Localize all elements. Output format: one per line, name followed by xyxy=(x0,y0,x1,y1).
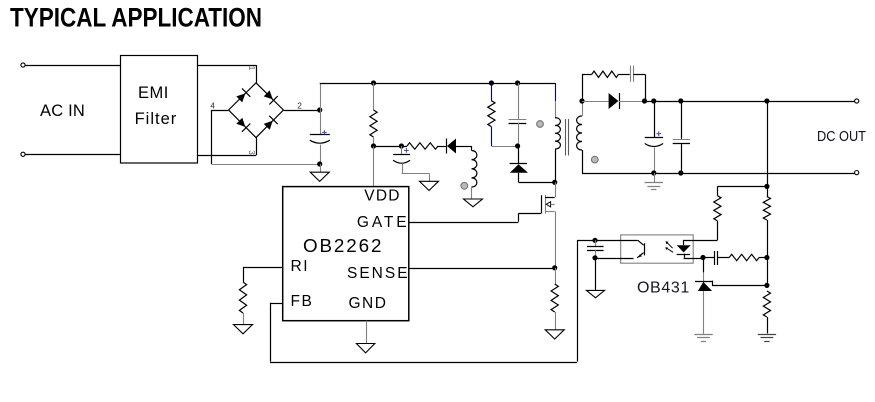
wire SENSE pin xyxy=(409,268,555,270)
VDD capacitor C2 (electrolytic) xyxy=(393,146,429,181)
bulk capacitor C1 (electrolytic) xyxy=(310,110,330,164)
node bulk cap bottom xyxy=(317,161,322,166)
diode D1 (aux rectifier) xyxy=(447,139,457,154)
bridge rectifier BD1 outline xyxy=(229,83,284,138)
node VDD cap xyxy=(399,143,404,148)
wire AC line to EMI filter xyxy=(25,65,120,67)
wire to input ground xyxy=(320,164,322,172)
DC OUT negative terminal xyxy=(855,171,859,175)
ground symbol (aux winding) xyxy=(464,199,483,207)
node FB cap bottom xyxy=(592,255,597,260)
label DC OUT xyxy=(817,129,866,145)
svg-text:AC IN: AC IN xyxy=(40,102,85,120)
clamp capacitor C3 xyxy=(509,83,527,146)
output capacitor C5 xyxy=(673,101,690,173)
wire divider to REF node xyxy=(767,258,769,286)
svg-text:Filter: Filter xyxy=(135,110,178,128)
wire REF to OB431 xyxy=(712,285,767,287)
pin label SENSE xyxy=(347,265,410,282)
label AC IN xyxy=(40,102,85,120)
wire GATE pin to MOSFET gate xyxy=(409,213,541,222)
wire FB to opto collector xyxy=(577,240,638,242)
wire RI pin xyxy=(243,267,283,282)
wire drain to primary xyxy=(555,182,557,197)
earth ground (divider) xyxy=(758,335,776,342)
svg-text:OB2262: OB2262 xyxy=(303,235,383,256)
title "TYPICAL APPLICATION" xyxy=(10,2,262,32)
node output cap 1 bottom xyxy=(651,170,656,175)
node clamp cap top xyxy=(515,80,520,85)
wire output diode to caps xyxy=(619,101,645,103)
node divider top xyxy=(764,184,769,189)
pin label GATE xyxy=(357,214,410,231)
node output cap 2 top xyxy=(678,98,683,103)
DC OUT positive terminal xyxy=(855,99,859,103)
shunt regulator U2 OB431 xyxy=(695,258,713,334)
node secondary top / snubber xyxy=(579,98,584,103)
pin label VDD xyxy=(364,188,400,205)
opto LED light arrows xyxy=(665,241,673,252)
polarity dot (secondary) xyxy=(591,156,598,163)
node sense xyxy=(552,265,557,270)
MOSFET Q1 xyxy=(542,195,555,214)
node REF xyxy=(764,283,769,288)
wire primary bottom rail (gray) xyxy=(212,164,320,166)
svg-text:TYPICAL APPLICATION: TYPICAL APPLICATION xyxy=(10,2,262,32)
opto phototransistor xyxy=(637,240,644,257)
wire source to sense node xyxy=(555,211,557,267)
optocoupler U3 package xyxy=(621,235,694,263)
wire to output earth xyxy=(654,173,656,182)
ground symbol (IC GND) xyxy=(356,344,374,353)
label OB431 xyxy=(637,279,690,296)
sense resistor R7 xyxy=(551,268,558,330)
node output cap 2 bottom xyxy=(678,170,683,175)
pin label RI xyxy=(291,258,310,275)
bridge pin label 1 xyxy=(247,66,256,71)
wire divider drop xyxy=(767,101,769,186)
wire HV DC rail xyxy=(320,83,555,85)
svg-text:2: 2 xyxy=(297,102,302,111)
svg-text:EMI: EMI xyxy=(138,84,169,102)
svg-text:GATE: GATE xyxy=(357,214,410,231)
wire clamp diode to drain node xyxy=(519,182,555,184)
node clamp resistor top xyxy=(489,80,494,85)
output diode D3 xyxy=(609,93,620,109)
svg-text:SENSE: SENSE xyxy=(347,265,410,282)
wire diode node to DC+ rail xyxy=(645,101,855,103)
ground symbol (RI) xyxy=(234,325,253,334)
svg-text:RI: RI xyxy=(291,258,310,275)
wire RI resistor to ground xyxy=(243,313,245,325)
node opto LED cathode xyxy=(700,255,705,260)
bridge diode bottom-left (pin4 to pin3) xyxy=(236,118,250,132)
svg-text:4: 4 xyxy=(210,102,215,111)
polarity dot (aux winding) xyxy=(461,182,468,189)
wire FB pin routing xyxy=(270,240,578,362)
AC input terminal (line) xyxy=(21,63,25,67)
node DC+ / divider xyxy=(764,98,769,103)
wire VDD node down to VDD pin xyxy=(373,146,375,187)
transformer primary winding xyxy=(555,101,560,182)
earth ground (OB431) xyxy=(694,335,712,342)
bridge diode top-right (pin1 to pin2) xyxy=(264,90,278,104)
wire secondary to output diode xyxy=(582,101,609,103)
svg-text:DC OUT: DC OUT xyxy=(817,129,866,145)
wire diode to aux winding xyxy=(456,146,472,151)
wire FB cap to ground xyxy=(595,258,597,291)
snubber wire to cathode node xyxy=(633,74,645,101)
svg-text:OB431: OB431 xyxy=(637,279,690,296)
label OB2262 xyxy=(303,235,383,256)
wire bridge pin 4 to bottom rail xyxy=(212,110,229,164)
aux resistor R2 xyxy=(407,143,438,149)
LED bias resistor R4 xyxy=(714,186,721,240)
node primary bottom / drain xyxy=(552,180,557,185)
bridge diode top-left (pin4 to pin1) xyxy=(236,88,250,102)
wire HV rail to primary top (blue) xyxy=(555,83,557,101)
svg-text:3: 3 xyxy=(247,150,256,155)
node comp RC xyxy=(764,255,769,260)
pin label GND xyxy=(349,295,388,312)
bridge diode bottom-right (pin3 to pin2) xyxy=(264,116,278,130)
snubber resistor R8 xyxy=(592,71,619,77)
node output cap 1 top xyxy=(651,98,656,103)
polarity dot (primary) xyxy=(537,121,544,128)
wire GND pin xyxy=(366,321,368,344)
svg-text:1: 1 xyxy=(247,66,256,71)
svg-text:FB: FB xyxy=(291,293,314,310)
earth ground (output) xyxy=(645,183,663,190)
snubber capacitor C7 xyxy=(631,66,634,82)
node clamp xyxy=(515,143,520,148)
ground symbol (VDD cap) xyxy=(420,181,439,190)
ground symbol (FB cap) xyxy=(587,290,605,297)
output capacitor C4 (electrolytic) xyxy=(645,101,663,173)
AC input terminal (neutral) xyxy=(21,152,25,156)
lower divider resistor R6 xyxy=(763,291,770,333)
wire bulk node up to HV rail xyxy=(320,83,322,110)
svg-text:VDD: VDD xyxy=(364,188,400,205)
snubber wire xyxy=(619,74,630,76)
node FB cap top xyxy=(592,238,597,243)
wire LED cathode to shunt node xyxy=(684,258,703,260)
FB capacitor C6 xyxy=(587,240,604,257)
wire aux winding to ground xyxy=(471,187,473,199)
ground symbol (input bulk cap) xyxy=(310,172,329,181)
node bulk cap top xyxy=(317,107,322,112)
EMI filter block xyxy=(121,56,198,164)
clamp resistor R3 xyxy=(488,83,495,146)
transformer core xyxy=(566,119,569,156)
pin label FB xyxy=(291,293,314,310)
startup resistor R1 xyxy=(370,83,377,146)
wire EMI bottom output to bridge pin 3 xyxy=(197,138,257,156)
op IC U1 OB2262 box xyxy=(283,187,409,321)
wire divider node to LED resistor xyxy=(717,186,767,188)
bridge pin label 2 xyxy=(297,102,302,111)
wire emitter line xyxy=(595,258,634,260)
node VDD xyxy=(371,143,376,148)
comp capacitor C8 xyxy=(703,251,729,265)
bridge pin label 3 xyxy=(247,150,256,155)
aux winding Na xyxy=(472,151,477,188)
opto LED xyxy=(677,240,691,257)
wire bridge pin 2 to bulk cap node xyxy=(283,110,319,112)
wire VDD node to aux network xyxy=(374,146,408,148)
wire AC neutral to EMI filter xyxy=(25,154,120,156)
ground symbol (sense resistor) xyxy=(545,330,564,339)
transformer secondary winding xyxy=(577,101,583,173)
wire LED anode to bias resistor xyxy=(683,240,717,242)
node snubber right xyxy=(642,98,647,103)
comp resistor R9 xyxy=(729,254,767,260)
svg-text:GND: GND xyxy=(349,295,388,312)
node HV rail / startup resistor xyxy=(371,80,376,85)
RI resistor R10 xyxy=(239,282,246,313)
wire EMI top output to bridge pin 1 xyxy=(197,65,257,83)
upper divider resistor R5 xyxy=(763,186,770,257)
wire DC- rail xyxy=(582,173,855,175)
wire clamp resistor bottom to cap bottom xyxy=(491,146,517,148)
bridge pin label 4 xyxy=(210,102,215,111)
clamp diode D2 xyxy=(510,146,528,182)
wire resistor to diode D1 xyxy=(438,146,446,148)
secondary snubber: wire up xyxy=(582,74,592,101)
